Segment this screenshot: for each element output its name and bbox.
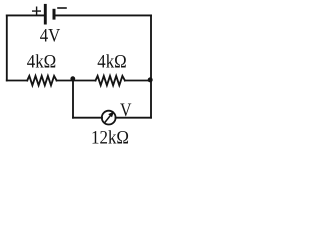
resistor R1 4k: [27, 76, 56, 85]
wire voltmeter branch left vertical: [72, 81, 74, 118]
svg-text:4kΩ: 4kΩ: [27, 51, 57, 72]
svg-text:4kΩ: 4kΩ: [97, 51, 127, 72]
wire bottom-left segment: [73, 117, 102, 119]
node A junction dot: [70, 76, 75, 81]
wire middle-right segment: [125, 80, 151, 82]
node B junction dot: [148, 77, 153, 82]
battery minus sign: [58, 7, 66, 9]
resistor R2 4k: [96, 76, 125, 85]
wire top-right segment: [56, 14, 151, 16]
svg-text:12kΩ: 12kΩ: [91, 127, 129, 146]
wire right side: [150, 15, 152, 117]
battery B1 positive plate: [44, 4, 47, 25]
wire left side: [6, 15, 8, 80]
battery B1 negative plate: [53, 9, 56, 20]
svg-text:V: V: [120, 100, 132, 121]
wire top-left segment: [7, 14, 44, 16]
battery plus sign: [33, 7, 41, 15]
voltmeter V1 needle: [105, 111, 114, 122]
wire middle-center segment: [57, 80, 96, 82]
wire middle-left segment: [7, 80, 27, 82]
svg-text:4V: 4V: [40, 25, 61, 46]
wire bottom-right segment: [116, 117, 151, 119]
voltmeter V1 body: [102, 111, 116, 125]
